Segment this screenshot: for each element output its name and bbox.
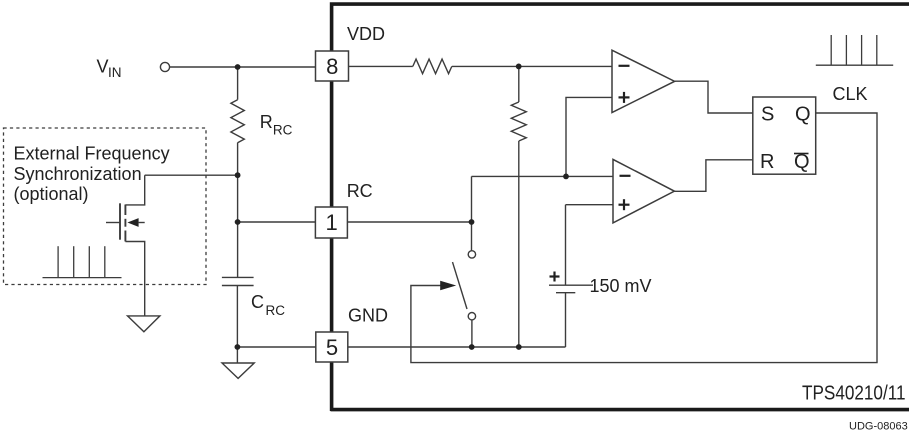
svg-text:IN: IN xyxy=(108,65,122,80)
svg-text:V: V xyxy=(97,57,109,77)
svg-text:TPS40210/11: TPS40210/11 xyxy=(802,383,906,405)
svg-text:R: R xyxy=(260,112,273,132)
svg-text:C: C xyxy=(251,292,264,312)
svg-text:Q: Q xyxy=(794,151,810,173)
svg-text:150 mV: 150 mV xyxy=(590,276,652,296)
svg-text:(optional): (optional) xyxy=(14,184,89,204)
svg-text:VDD: VDD xyxy=(347,24,385,44)
svg-text:External Frequency: External Frequency xyxy=(14,144,170,164)
svg-text:S: S xyxy=(761,104,774,126)
svg-text:R: R xyxy=(760,151,774,173)
svg-text:GND: GND xyxy=(348,305,388,325)
svg-text:8: 8 xyxy=(326,54,338,79)
svg-text:Q: Q xyxy=(795,104,811,126)
svg-text:RC: RC xyxy=(266,303,286,318)
svg-text:RC: RC xyxy=(273,123,293,138)
svg-text:CLK: CLK xyxy=(833,84,868,104)
svg-text:5: 5 xyxy=(326,335,338,360)
svg-text:1: 1 xyxy=(325,210,337,235)
svg-text:RC: RC xyxy=(347,181,373,201)
svg-text:Synchronization: Synchronization xyxy=(14,164,142,184)
svg-text:UDG-08063: UDG-08063 xyxy=(849,421,908,433)
